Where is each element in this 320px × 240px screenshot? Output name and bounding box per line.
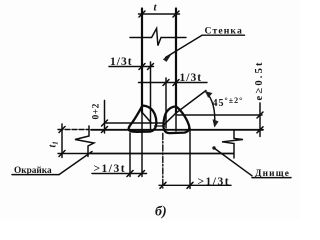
tick 1/3t left a	[139, 64, 145, 70]
horizontal ref line right	[177, 114, 262, 116]
leader Стенка	[166, 35, 203, 57]
tick e top	[257, 112, 263, 118]
extension line left weld toe	[129, 133, 131, 177]
tick 1/3t right b	[173, 80, 179, 86]
svg-text:б): б)	[155, 205, 167, 220]
underline Стенка	[202, 34, 245, 36]
leader Стенка arrowhead	[163, 55, 171, 62]
leader Днище dot	[212, 146, 215, 149]
plate break right zigzag	[222, 131, 243, 159]
extension line right weld toe	[189, 128, 191, 189]
underline Окрайка	[12, 174, 59, 176]
tick bottom left a	[127, 171, 133, 177]
left weld bevel line	[142, 113, 151, 123]
wall break line	[130, 28, 186, 45]
svg-text:45°±2°: 45°±2°	[213, 96, 244, 109]
right weld bevel line	[165, 113, 177, 124]
svg-text:0+2: 0+2	[92, 103, 102, 119]
tick bottom right a	[160, 182, 166, 188]
right weld bead outline	[163, 106, 189, 133]
extension line 1/3t right inner	[165, 78, 167, 128]
dimension 0+2 line	[104, 101, 106, 134]
dimension 1/3t right line	[139, 82, 208, 84]
tick t1 top	[59, 127, 65, 133]
bevel extension line 45deg	[176, 91, 206, 114]
centre line dash-dot	[162, 134, 164, 189]
dimension bottom left line	[92, 173, 147, 175]
extension line 1/3t left inner	[150, 62, 152, 131]
plate break left zigzag	[75, 126, 94, 157]
tick t right	[173, 11, 179, 17]
tick 0+2 bottom	[102, 127, 108, 133]
tick e bottom	[257, 127, 263, 133]
bottom plate top thin ext left	[58, 129, 89, 131]
bottom plate bottom thin ext left	[58, 153, 91, 155]
underline Днище	[252, 177, 291, 179]
wall right face line	[175, 9, 177, 114]
dimension t line	[139, 13, 180, 15]
leader Днище	[214, 148, 252, 176]
tick t1 bottom	[59, 151, 65, 157]
svg-text:>1/3t: >1/3t	[94, 163, 127, 175]
tick t left	[139, 11, 145, 17]
wall bottom edge line	[105, 122, 162, 124]
tick bottom left b	[139, 171, 145, 177]
bottom plate bottom surface line	[91, 153, 234, 155]
leader Окрайка	[59, 152, 92, 175]
bottom plate top surface line	[91, 129, 263, 131]
wall left face line	[141, 9, 143, 113]
angle arc arrowhead	[213, 120, 218, 128]
svg-text:1/3t: 1/3t	[110, 56, 133, 68]
dimension t1 line	[61, 124, 63, 158]
left weld bead outline	[129, 106, 157, 132]
svg-text:Стенка: Стенка	[205, 26, 243, 37]
svg-text:t: t	[154, 2, 158, 14]
tick 1/3t right a	[163, 80, 169, 86]
angle arc start arrowhead	[205, 91, 212, 97]
angle arc 45deg	[206, 92, 215, 125]
svg-text:>1/3t: >1/3t	[198, 176, 231, 188]
tick bottom right b	[187, 182, 193, 188]
svg-text:e≥0.5t: e≥0.5t	[254, 60, 265, 100]
extension line wall left face down	[141, 113, 143, 177]
tick 0+2 top	[102, 120, 108, 126]
tick 1/3t left b	[148, 64, 154, 70]
svg-text:t1: t1	[48, 141, 60, 147]
dimension 1/3t left line	[109, 66, 154, 68]
svg-text:Окрайка: Окрайка	[14, 165, 52, 176]
dimension bottom right line	[159, 184, 231, 186]
weld root line at waist	[155, 125, 165, 127]
extension line wall right face down	[175, 113, 177, 131]
svg-text:Днище: Днище	[255, 169, 290, 179]
svg-text:1/3t: 1/3t	[180, 72, 203, 84]
dimension e line	[259, 103, 261, 137]
